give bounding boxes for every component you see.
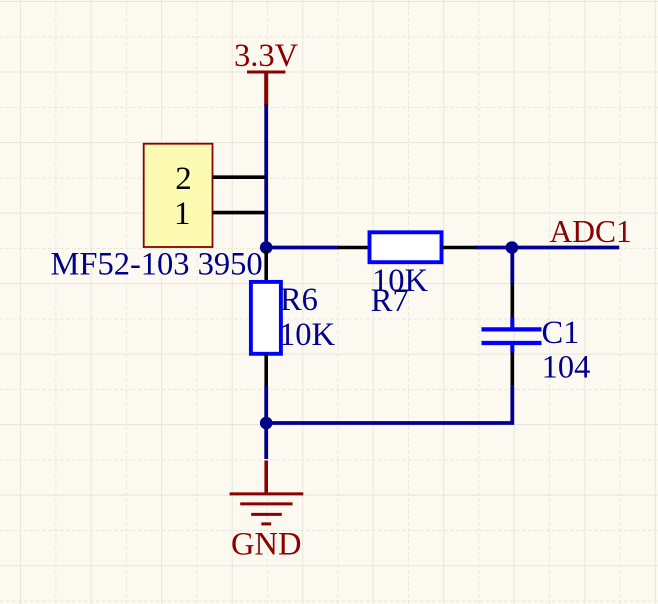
pin wire node A down to R6 [264, 250, 268, 283]
wire node B down to C1 [510, 248, 514, 284]
resistor R6 [251, 282, 281, 354]
svg-text:10K: 10K [279, 317, 336, 353]
pin wire R6 down [264, 354, 268, 387]
svg-text:GND: GND [231, 527, 301, 563]
svg-text:MF52-103 3950: MF52-103 3950 [51, 247, 263, 283]
svg-text:2: 2 [175, 161, 192, 197]
node B junction [506, 241, 519, 254]
svg-text:R7: R7 [371, 283, 409, 319]
ground [230, 461, 304, 524]
wire from 3.3V down to node A [264, 105, 268, 248]
wire R6 to node C [264, 386, 268, 423]
power rail 3.3V [247, 72, 285, 106]
wire R7 to node B and ADC1 [475, 246, 619, 250]
svg-text:ADC1: ADC1 [550, 214, 632, 249]
wire node C down to ground [264, 423, 268, 459]
resistor R7 [338, 232, 476, 262]
svg-text:1: 1 [174, 196, 191, 232]
wire C1 down and left to node C [266, 386, 512, 423]
svg-text:R6: R6 [280, 282, 318, 318]
wire node A to R7 [266, 246, 339, 250]
node C junction [260, 417, 273, 430]
svg-text:104: 104 [542, 350, 591, 386]
capacitor C1 [482, 283, 542, 386]
connector body (MF52 thermistor) [144, 144, 213, 247]
svg-text:3.3V: 3.3V [234, 38, 299, 74]
svg-text:C1: C1 [542, 315, 580, 351]
node A junction [260, 241, 273, 254]
pin 1 [174, 196, 266, 232]
pin 2 [175, 161, 265, 197]
